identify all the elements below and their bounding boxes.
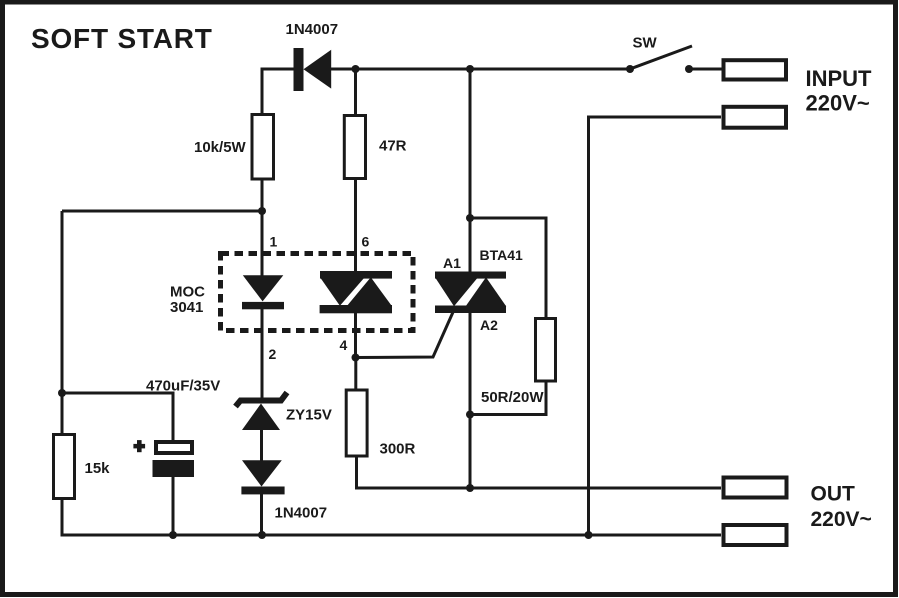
node junction A2 out — [466, 484, 474, 492]
svg-text:INPUT: INPUT — [806, 66, 873, 91]
svg-text:MOC: MOC — [170, 284, 205, 301]
wire 47R to MOC pin6 — [354, 178, 357, 272]
diode D1 1N4007 — [286, 21, 339, 91]
switch SW — [626, 35, 693, 74]
wire LED to zener — [261, 309, 264, 398]
wire switch to input terminal — [689, 68, 722, 71]
wire left vertical — [61, 211, 64, 434]
node junction diode bottom — [258, 531, 266, 539]
label OUT 220V~ — [811, 483, 872, 532]
wire diode to switch — [331, 68, 630, 71]
node junction cap branch — [58, 389, 66, 397]
svg-text:1N4007: 1N4007 — [275, 505, 328, 522]
svg-text:220V~: 220V~ — [806, 91, 870, 116]
svg-text:1: 1 — [270, 234, 278, 250]
svg-text:300R: 300R — [380, 441, 416, 458]
terminal OUT-2 — [724, 525, 787, 545]
wire top-left corner to diode — [262, 69, 294, 113]
svg-text:50R/20W: 50R/20W — [481, 389, 544, 406]
label INPUT 220V~ — [806, 66, 873, 116]
svg-text:ZY15V: ZY15V — [286, 407, 332, 424]
svg-text:1N4007: 1N4007 — [286, 21, 339, 38]
resistor R3 300R — [346, 390, 415, 458]
wire MOC pin4 — [354, 313, 357, 358]
wire cap bottom to rail — [172, 477, 175, 535]
svg-text:470uF/35V: 470uF/35V — [146, 378, 220, 395]
wire zener to diode — [260, 429, 263, 461]
resistor R2 47R — [344, 116, 406, 179]
wire bottom rail — [61, 534, 722, 537]
wire cap branch horizontal — [62, 393, 173, 441]
node junction pin4 — [352, 354, 360, 362]
resistor R5 15k — [54, 435, 111, 499]
svg-text:6: 6 — [362, 234, 370, 250]
wire 47R top — [354, 69, 357, 115]
svg-text:A2: A2 — [480, 317, 498, 333]
resistor R4 50R/20W — [481, 319, 556, 407]
wire pin4 to 300R — [354, 358, 357, 391]
LED diode inside MOC — [242, 275, 284, 309]
wire main vertical A1 — [469, 69, 472, 272]
svg-text:220V~: 220V~ — [811, 508, 872, 531]
capacitor C1 470uF/35V — [133, 378, 220, 478]
wire 50R top branch — [470, 218, 546, 319]
wire 300R to OUT-1 — [357, 455, 722, 488]
node junction cap bottom — [169, 531, 177, 539]
svg-text:BTA41: BTA41 — [480, 247, 524, 263]
node junction input2 rail — [585, 531, 593, 539]
svg-text:2: 2 — [269, 346, 277, 362]
wire A2 down — [469, 313, 472, 488]
wire 50R bottom branch — [470, 380, 546, 415]
svg-text:15k: 15k — [85, 460, 111, 477]
terminal INPUT-1 — [724, 60, 787, 79]
zener diode D3 ZY15V — [236, 393, 332, 431]
svg-text:10k/5W: 10k/5W — [194, 139, 247, 156]
wire INPUT-2 to bottom rail — [589, 117, 722, 535]
svg-text:3041: 3041 — [170, 299, 203, 316]
node junction top at main vertical — [466, 65, 474, 73]
triac Q1 BTA41 — [435, 247, 523, 333]
wire 10k bottom to MOC pin1 — [261, 180, 264, 276]
svg-text:47R: 47R — [379, 138, 407, 155]
node junction top at 47R — [352, 65, 360, 73]
node junction left branch — [258, 207, 266, 215]
terminal OUT-1 — [724, 478, 787, 498]
optocoupler U1 MOC3041 dashed box — [170, 254, 413, 331]
svg-text:SW: SW — [633, 35, 658, 52]
terminal INPUT-2 — [724, 107, 787, 128]
svg-text:SOFT START: SOFT START — [31, 23, 213, 54]
wire diode to rail — [260, 494, 263, 535]
diode D4 1N4007 — [241, 460, 327, 521]
triac inside MOC — [320, 271, 392, 313]
wire left branch horizontal — [62, 210, 262, 213]
node junction 50R bottom — [466, 411, 474, 419]
svg-text:4: 4 — [340, 337, 348, 353]
wire 15k bottom to rail — [61, 498, 64, 535]
svg-text:OUT: OUT — [811, 483, 856, 506]
wire gate of BTA41 — [356, 311, 454, 358]
resistor R1 10k/5W — [194, 115, 274, 180]
node junction 50R top — [466, 214, 474, 222]
svg-text:A1: A1 — [443, 255, 461, 271]
